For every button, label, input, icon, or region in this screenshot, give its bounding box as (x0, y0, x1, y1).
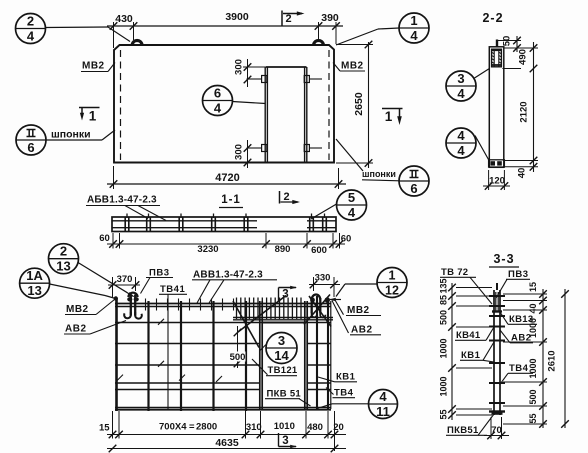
svg-text:600: 600 (311, 245, 327, 256)
svg-text:40: 40 (528, 303, 538, 313)
svg-text:1010: 1010 (274, 421, 295, 432)
svg-text:шпонки: шпонки (362, 169, 396, 179)
svg-text:135: 135 (439, 278, 449, 293)
svg-text:1000: 1000 (439, 376, 449, 396)
svg-text:2800: 2800 (196, 422, 217, 433)
svg-text:2: 2 (60, 244, 67, 259)
svg-text:1: 1 (389, 269, 396, 283)
svg-text:2610: 2610 (547, 350, 558, 371)
svg-text:4: 4 (457, 86, 465, 101)
svg-text:120: 120 (489, 176, 505, 187)
svg-text:60: 60 (341, 234, 352, 245)
svg-text:3: 3 (457, 71, 464, 86)
svg-text:шпонки: шпонки (51, 129, 91, 141)
svg-text:6: 6 (27, 140, 34, 155)
svg-text:2650: 2650 (353, 92, 365, 116)
svg-text:АВ2: АВ2 (351, 325, 373, 336)
svg-text:1: 1 (385, 109, 393, 124)
svg-text:3: 3 (278, 333, 285, 348)
svg-text:4: 4 (457, 143, 465, 158)
svg-text:4: 4 (348, 205, 356, 220)
svg-text:12: 12 (385, 284, 399, 298)
svg-text:1: 1 (89, 109, 97, 124)
svg-text:890: 890 (275, 244, 291, 255)
svg-text:13: 13 (56, 259, 70, 274)
svg-text:3: 3 (282, 435, 288, 447)
svg-text:КВ1: КВ1 (461, 350, 481, 361)
svg-text:85: 85 (439, 295, 449, 305)
svg-text:70: 70 (491, 425, 502, 436)
svg-text:ТВ4: ТВ4 (509, 363, 529, 374)
svg-text:АВ2: АВ2 (511, 333, 532, 344)
svg-text:6: 6 (410, 181, 417, 196)
svg-text:ТВ4: ТВ4 (334, 388, 354, 399)
svg-text:1: 1 (410, 13, 417, 28)
svg-text:ПВ3: ПВ3 (508, 269, 528, 280)
svg-text:4: 4 (379, 389, 387, 404)
svg-text:700X4: 700X4 (159, 422, 187, 433)
svg-text:11: 11 (376, 404, 390, 419)
svg-text:МВ2: МВ2 (347, 305, 370, 316)
svg-text:4: 4 (27, 29, 35, 44)
svg-text:3: 3 (282, 289, 288, 301)
svg-text:3900: 3900 (225, 11, 249, 23)
svg-text:6: 6 (214, 86, 221, 101)
svg-text:1А: 1А (26, 268, 43, 283)
svg-text:МВ2: МВ2 (82, 61, 105, 72)
svg-text:430: 430 (115, 13, 133, 25)
svg-text:5: 5 (348, 190, 355, 205)
svg-text:4720: 4720 (215, 172, 239, 184)
svg-text:40: 40 (517, 168, 528, 179)
svg-text:КВ41: КВ41 (456, 330, 481, 341)
svg-text:50: 50 (502, 36, 513, 47)
svg-text:ПКВ51: ПКВ51 (447, 425, 479, 436)
svg-text:3-3: 3-3 (493, 252, 514, 266)
svg-text:13: 13 (27, 283, 41, 298)
svg-text:310: 310 (246, 422, 262, 433)
svg-text:ТВ 72: ТВ 72 (441, 267, 468, 278)
svg-text:300: 300 (234, 59, 245, 75)
svg-text:АВ2: АВ2 (65, 324, 87, 335)
svg-text:370: 370 (117, 274, 133, 285)
svg-text:55: 55 (439, 409, 449, 419)
svg-text:=: = (189, 422, 195, 433)
svg-text:490: 490 (518, 49, 529, 65)
svg-text:14: 14 (274, 348, 289, 363)
svg-text:15: 15 (528, 282, 538, 292)
svg-text:20: 20 (333, 422, 344, 433)
svg-text:ПВ3: ПВ3 (149, 268, 169, 279)
svg-text:КВ1: КВ1 (336, 372, 356, 383)
svg-text:КВ13: КВ13 (509, 314, 533, 325)
svg-text:500: 500 (230, 352, 246, 363)
svg-text:300: 300 (234, 144, 245, 160)
svg-text:АВВ1.3-47-2.3: АВВ1.3-47-2.3 (193, 270, 263, 281)
svg-text:1000: 1000 (528, 358, 538, 378)
svg-text:ТВ121: ТВ121 (268, 365, 298, 376)
svg-text:2120: 2120 (519, 101, 530, 122)
svg-text:4: 4 (410, 28, 418, 43)
svg-text:4: 4 (457, 128, 465, 143)
svg-text:2-2: 2-2 (482, 11, 503, 25)
svg-text:2: 2 (283, 191, 289, 203)
svg-text:390: 390 (321, 12, 339, 24)
svg-text:480: 480 (307, 422, 323, 433)
svg-text:500: 500 (528, 389, 538, 404)
svg-text:3230: 3230 (197, 244, 218, 255)
svg-text:1-1: 1-1 (221, 194, 241, 206)
svg-text:4635: 4635 (215, 437, 239, 449)
svg-text:АБВ1.3-47-2.3: АБВ1.3-47-2.3 (87, 195, 157, 206)
svg-text:15: 15 (99, 423, 110, 434)
svg-text:ПКВ 51: ПКВ 51 (267, 389, 302, 400)
svg-text:2: 2 (27, 14, 34, 29)
svg-text:МВ2: МВ2 (341, 61, 364, 72)
svg-text:4: 4 (214, 101, 222, 116)
svg-text:МВ2: МВ2 (66, 304, 89, 315)
svg-text:55: 55 (528, 413, 538, 423)
svg-text:330: 330 (315, 273, 331, 284)
svg-text:ТВ41: ТВ41 (160, 284, 185, 295)
svg-text:60: 60 (99, 233, 110, 244)
svg-text:500: 500 (439, 310, 449, 325)
svg-text:2: 2 (285, 13, 291, 25)
svg-text:1000: 1000 (439, 338, 449, 358)
